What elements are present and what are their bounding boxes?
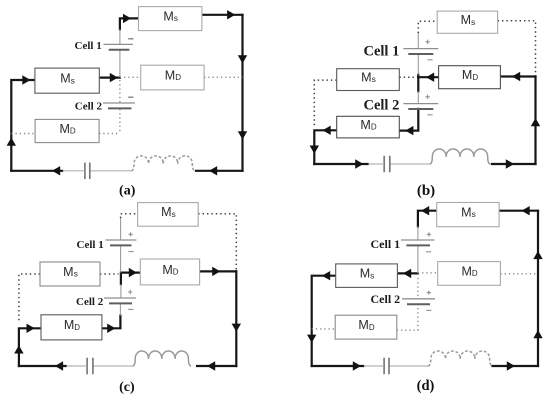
svg-text:(d): (d)	[417, 378, 435, 394]
battery Cell 1 (b)	[403, 40, 438, 60]
wire: (a) bottom left segment with left arrow	[11, 166, 62, 175]
dotted link: (b) bus stub to top Ms	[418, 21, 437, 33]
wire: (c) bottom light link inductor to capacitor	[93, 365, 133, 367]
wire: (b) bus thick segment below junction	[417, 75, 419, 92]
dotted link: (c) left rail dotted upper to middle Ms	[19, 274, 40, 322]
wire: (c) middle MD output to right rail, right arrow	[200, 267, 237, 276]
node: (c) cell bus gray segments	[119, 218, 122, 316]
battery Cell 2 (b)	[403, 95, 438, 115]
svg-text:(a): (a)	[119, 184, 136, 199]
block Ms middle (c)	[40, 262, 100, 286]
block MD middle (c)	[140, 259, 199, 285]
wire: (b) middle MD left to bus, left arrow	[418, 73, 438, 82]
wire: (d) right rail top into top Ms, left arrow	[499, 206, 538, 215]
svg-text:(c): (c)	[119, 380, 135, 395]
dotted link: (c) bus stub to top Ms	[121, 214, 138, 218]
svg-text:Cell 1: Cell 1	[364, 43, 400, 59]
svg-text:Cell 2: Cell 2	[371, 292, 401, 306]
wire: (d) bottom left segment with right arrow	[312, 361, 363, 370]
block Ms top (a)	[139, 7, 202, 31]
block Ms top (b)	[437, 11, 497, 33]
wire: (b) bus exit below Cell 2 into lower MD, left arrow	[399, 109, 418, 136]
dotted link: (c) middle Ms right to bus	[100, 273, 119, 275]
wire: (a) right rail (down arrows)	[238, 15, 247, 171]
wire: (d) bottom right segment with right arrow	[493, 361, 539, 370]
block Ms middle (a)	[35, 68, 99, 93]
wire: (a) middle Ms output to cell bus junction, right arrow	[99, 73, 120, 82]
wire: (d) left rail from middle Ms output, left arrow and down arrow	[307, 271, 336, 366]
battery Cell 2 (d)	[402, 290, 435, 310]
wire: (c) right rail solid with down arrow	[232, 271, 241, 366]
block MD lower (c)	[41, 315, 102, 340]
wire: (d) right rail solid with two up arrows	[533, 211, 542, 366]
capacitor C (a)	[85, 163, 90, 180]
node: (d) cell bus gray and dotted segments	[417, 226, 419, 298]
dotted link: (b) left rail upper dotted to middle Ms	[314, 80, 336, 128]
svg-text:Cell 1: Cell 1	[77, 239, 104, 251]
block MD middle (a)	[141, 65, 204, 90]
svg-text:Cell 1: Cell 1	[371, 237, 401, 251]
node: (a) cell bus upper gray segments	[119, 29, 121, 77]
battery Cell 1 (c)	[105, 232, 136, 252]
wire: (c) lower MD output up to Cell 2, right arrow	[102, 316, 121, 333]
inductor L (d)	[428, 351, 492, 366]
block MD middle (b)	[439, 66, 501, 89]
wire: (d) bottom light link inductor to capacitor	[389, 365, 429, 367]
svg-text:Cell 1: Cell 1	[75, 40, 102, 52]
wire: (c) left rail solid up into lower MD, up arrow and right arrow	[14, 324, 41, 366]
wire: (a) bottom right segment with left arrow	[196, 166, 243, 175]
dotted link: (c) top Ms to right rail dotted	[198, 214, 236, 271]
wire: (c) bottom light link capacitor left	[65, 365, 87, 367]
block MD middle (d)	[438, 262, 501, 286]
wire: (a) bottom light link capacitor to left segment	[61, 170, 85, 172]
capacitor C (c)	[87, 358, 93, 375]
node: (a) cell bus lower dotted segments	[119, 80, 121, 134]
battery Cell 1 (d)	[401, 232, 435, 252]
wire: (b) middle MD to right rail, left arrow	[500, 72, 535, 81]
dotted link: (d) middle MD right to right rail	[500, 273, 538, 275]
block MD lower (a)	[35, 119, 99, 142]
wire: (b) bottom right segment with right arrow	[492, 159, 536, 168]
dotted link: (d) left rail to lower MD	[312, 328, 336, 330]
inductor L (b)	[430, 149, 491, 164]
svg-text:Cell 2: Cell 2	[76, 296, 104, 308]
dotted link: (b) top Ms to right rail top	[498, 21, 536, 76]
inductor L (c)	[133, 351, 192, 366]
dotted link: (a) bus to sending machine MD left	[120, 76, 141, 78]
dotted link: (a) lower MD to cell bus	[99, 133, 120, 135]
block Ms middle (b)	[337, 69, 400, 91]
inductor L (a)	[131, 156, 195, 171]
dotted link: (d) lower MD right to bus elbow	[397, 304, 418, 330]
battery Cell 2 (a)	[103, 97, 135, 108]
wire: (b) left rail solid with down arrow, from lower MD output	[310, 126, 337, 164]
wire: (c) bottom left segment with left arrow	[19, 361, 66, 370]
svg-text:(b): (b)	[417, 183, 435, 199]
svg-text:Cell 2: Cell 2	[75, 100, 103, 112]
block Ms top (c)	[138, 203, 199, 227]
wire: (c) bus junction elbow into middle MD, right arrow	[121, 268, 140, 284]
block MD lower (b)	[337, 116, 400, 138]
capacitor C (d)	[384, 358, 389, 375]
battery Cell 1 (a)	[103, 39, 133, 50]
capacitor C (b)	[384, 156, 390, 173]
wire: (a) top Ms output to right rail, right arrow	[202, 10, 243, 19]
svg-text:Cell 2: Cell 2	[364, 98, 400, 114]
node: (b) cell bus gray segments	[417, 33, 419, 104]
dotted link: (d) bus to middle MD left	[418, 272, 438, 274]
battery Cell 2 (c)	[104, 290, 136, 310]
wire: (a) bottom light link inductor to capacitor	[90, 170, 132, 172]
dotted link: (a) left rail to lower MD	[11, 133, 35, 135]
block Ms middle (d)	[336, 264, 398, 288]
wire: (b) bottom light link capacitor left	[367, 163, 385, 165]
block MD lower (d)	[335, 315, 397, 339]
wire: (b) bottom light link inductor to capacitor	[389, 163, 430, 165]
dotted link: (a) MD right to right rail	[204, 76, 242, 78]
wire: (d) bottom light link capacitor left	[362, 365, 384, 367]
wire: (a) feed stub from cell bus up to top Ms, with right arrow	[120, 14, 139, 30]
wire: (d) bus junction to middle Ms input, left arrow	[397, 269, 418, 278]
wire: (b) right rail lower solid, up arrow	[531, 77, 540, 165]
block Ms top (d)	[437, 203, 499, 227]
wire: (c) bottom right segment with left arrow	[197, 361, 236, 370]
wire: (b) bottom left segment with right arrow	[314, 159, 367, 168]
wire: (a) left rail up to middle Ms input, up arrow and right arrow	[7, 75, 35, 171]
dotted link: (b) middle Ms right to bus	[399, 76, 418, 78]
wire: (d) top Ms output to bus stub, left arrow	[418, 206, 437, 226]
